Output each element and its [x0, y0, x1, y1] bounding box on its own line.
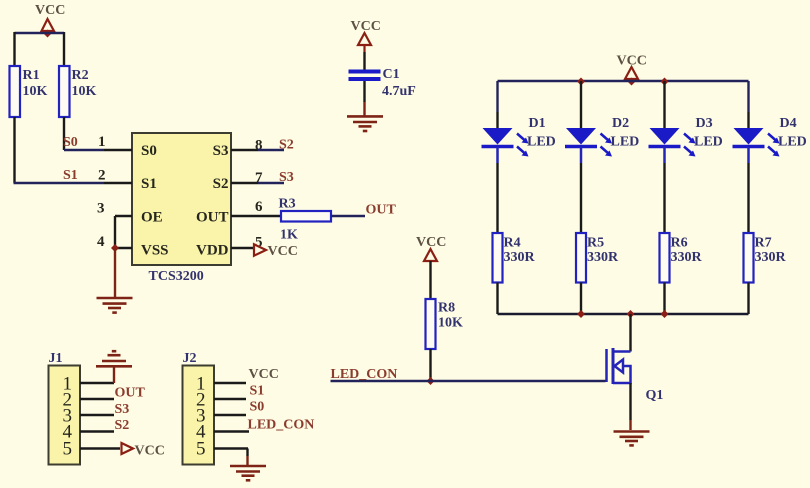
- wire J1-1 to ground: [113, 366, 115, 383]
- ground under VSS: [97, 298, 133, 313]
- ground inverted at J1: [96, 351, 132, 366]
- junction rail D3: [661, 78, 669, 86]
- resistor R2: [59, 66, 97, 117]
- pin 6 OUT: [196, 199, 281, 226]
- pin J2-5: [214, 447, 248, 449]
- wire rail to D4: [747, 81, 749, 112]
- wire J2-5 to ground: [246, 449, 248, 457]
- wire net S0: [64, 149, 104, 151]
- svg-text:VCC: VCC: [35, 3, 65, 18]
- pin 1 S0: [98, 134, 157, 159]
- svg-text:LED_CON: LED_CON: [331, 367, 398, 382]
- pin J2-1: [214, 382, 246, 384]
- wire LED bottom rail: [498, 313, 749, 315]
- svg-text:D4: D4: [780, 116, 797, 131]
- resistor R7: [744, 233, 787, 283]
- pin J1-3: [80, 414, 114, 416]
- svg-text:LED: LED: [694, 135, 723, 150]
- resistor R3: [279, 197, 332, 243]
- wire D1 to R4: [496, 147, 499, 164]
- svg-text:S3: S3: [279, 170, 294, 185]
- svg-text:LED: LED: [527, 135, 556, 150]
- wire D4 to R7: [747, 147, 750, 164]
- svg-text:3: 3: [97, 201, 105, 217]
- pin J2-2: [214, 398, 246, 400]
- wire net S2: [258, 149, 284, 151]
- svg-text:OE: OE: [141, 210, 163, 226]
- svg-text:10K: 10K: [438, 316, 463, 331]
- svg-text:R7: R7: [755, 236, 772, 251]
- capacitor C1: [349, 67, 416, 99]
- wire R2 bottom to S0: [63, 117, 65, 150]
- svg-text:VCC: VCC: [249, 367, 279, 382]
- svg-text:330R: 330R: [755, 250, 787, 265]
- svg-text:LED_CON: LED_CON: [248, 418, 315, 433]
- svg-text:6: 6: [255, 199, 263, 215]
- wire VCC to C1: [363, 52, 365, 70]
- svg-text:4.7uF: 4.7uF: [382, 84, 416, 99]
- svg-text:10K: 10K: [23, 84, 48, 99]
- wire LED top rail: [498, 80, 749, 82]
- svg-text:S1: S1: [250, 384, 265, 399]
- pin J1-4: [80, 430, 114, 432]
- svg-text:330R: 330R: [504, 250, 536, 265]
- svg-text:10K: 10K: [72, 84, 97, 99]
- resistor R4: [493, 233, 536, 283]
- wire R1 top: [13, 32, 15, 66]
- resistor R1: [10, 66, 48, 117]
- pin J1-5: [80, 447, 120, 449]
- wire rail to D3: [663, 81, 665, 128]
- svg-text:VSS: VSS: [141, 243, 169, 259]
- wire OE to VSS: [114, 216, 116, 248]
- power VCC above C1: [351, 19, 381, 52]
- junction rail D2: [577, 78, 585, 86]
- pin 3 OE: [97, 201, 163, 226]
- pin J1-1: [80, 382, 114, 384]
- ground under C1: [347, 116, 383, 131]
- svg-text:R1: R1: [23, 68, 40, 83]
- power VCC above R8: [416, 235, 446, 261]
- wire source to ground: [629, 383, 631, 420]
- svg-text:S1: S1: [63, 168, 78, 183]
- wire R5 bottom: [580, 283, 582, 315]
- ground under Q1: [614, 432, 650, 446]
- resistor R5: [576, 233, 619, 283]
- svg-text:R4: R4: [504, 236, 521, 251]
- ground under J2: [230, 466, 266, 480]
- junction bottom rail R6: [661, 310, 669, 318]
- svg-text:2: 2: [98, 168, 106, 184]
- svg-text:OUT: OUT: [196, 210, 229, 226]
- svg-text:1: 1: [98, 134, 106, 150]
- svg-text:VCC: VCC: [416, 235, 446, 250]
- svg-text:VCC: VCC: [135, 444, 165, 459]
- junction bottom rail R5: [577, 310, 585, 318]
- wire R6 bottom: [663, 283, 665, 315]
- junction VCC on rail: [628, 78, 636, 86]
- wire C1 to ground: [363, 81, 365, 102]
- svg-text:VDD: VDD: [196, 243, 229, 259]
- svg-text:5: 5: [63, 439, 73, 460]
- power VCC at J1-5: [122, 443, 165, 459]
- svg-text:S2: S2: [115, 418, 130, 433]
- wire R7 bottom: [747, 283, 749, 315]
- wire net S3: [258, 182, 284, 184]
- wire VCC rail: [15, 32, 65, 34]
- LED D1: [482, 116, 556, 157]
- svg-text:R2: R2: [72, 68, 89, 83]
- junction bottom rail drain: [627, 310, 635, 318]
- svg-text:S1: S1: [141, 176, 157, 192]
- wire net S1: [14, 182, 105, 184]
- svg-text:4: 4: [97, 234, 105, 250]
- wire R4 bottom: [496, 283, 498, 315]
- connector J1: [49, 351, 81, 465]
- power VCC top-left: [35, 3, 65, 34]
- svg-text:C1: C1: [383, 67, 400, 82]
- svg-text:TCS3200: TCS3200: [149, 269, 204, 284]
- junction pin4: [111, 244, 119, 252]
- svg-text:S2: S2: [213, 176, 229, 192]
- wire rail to D1: [496, 81, 498, 112]
- svg-text:D3: D3: [696, 116, 713, 131]
- LED D2: [565, 116, 639, 157]
- power VCC at VDD: [254, 244, 298, 259]
- wire R3 to OUT: [331, 215, 365, 217]
- svg-text:D1: D1: [529, 116, 546, 131]
- power VCC above LED rail: [617, 54, 647, 82]
- svg-text:S0: S0: [63, 135, 78, 150]
- wire D3 to R6: [663, 147, 666, 164]
- pin 2 S1: [98, 168, 157, 193]
- svg-text:R5: R5: [587, 236, 604, 251]
- svg-text:R6: R6: [671, 236, 688, 251]
- wire VSS to ground: [114, 248, 116, 297]
- svg-text:S0: S0: [141, 143, 157, 159]
- svg-text:330R: 330R: [587, 250, 619, 265]
- svg-text:5: 5: [196, 439, 206, 460]
- pin 8 S3: [213, 138, 263, 160]
- svg-text:Q1: Q1: [646, 388, 664, 403]
- pin J2-3: [214, 414, 246, 416]
- wire R8 to LED_CON: [429, 349, 431, 381]
- svg-text:1K: 1K: [280, 228, 298, 243]
- pin 5 VDD: [196, 235, 263, 259]
- wire R2 top: [63, 32, 65, 66]
- wire rail to drain: [629, 314, 631, 352]
- junction R8 LED_CON: [427, 377, 435, 385]
- LED D4: [733, 116, 807, 157]
- svg-text:VCC: VCC: [268, 244, 298, 259]
- wire D2 to R5: [580, 147, 583, 164]
- svg-text:J2: J2: [183, 351, 197, 366]
- wire VCC to R8: [429, 261, 431, 299]
- svg-text:S2: S2: [279, 138, 294, 153]
- svg-text:LED: LED: [611, 135, 640, 150]
- wire net LED_CON: [331, 380, 606, 382]
- wire R1 bottom to S1: [13, 117, 15, 183]
- svg-text:OUT: OUT: [115, 386, 146, 401]
- resistor R8: [426, 299, 464, 349]
- svg-text:LED: LED: [778, 135, 807, 150]
- wire rail to D2: [580, 81, 582, 128]
- svg-text:OUT: OUT: [366, 203, 397, 218]
- svg-text:J1: J1: [49, 351, 63, 366]
- svg-text:S3: S3: [213, 143, 229, 159]
- junction VCC rail: [44, 30, 52, 38]
- svg-text:VCC: VCC: [351, 19, 381, 34]
- pin 7 S2: [213, 170, 263, 192]
- LED D3: [649, 116, 723, 157]
- connector J2: [183, 351, 215, 465]
- svg-text:D2: D2: [612, 116, 629, 131]
- svg-text:S3: S3: [115, 402, 130, 417]
- pin J2-4: [214, 430, 249, 432]
- svg-text:R3: R3: [279, 197, 296, 212]
- pin 4 VSS: [97, 234, 169, 259]
- op-amp U1 TCS3200 body: [132, 133, 231, 284]
- resistor R6: [660, 233, 703, 283]
- svg-text:330R: 330R: [671, 250, 703, 265]
- pin J1-2: [80, 398, 114, 400]
- transistor Q1: [607, 348, 664, 403]
- svg-text:S0: S0: [250, 400, 265, 415]
- svg-text:R8: R8: [438, 301, 455, 316]
